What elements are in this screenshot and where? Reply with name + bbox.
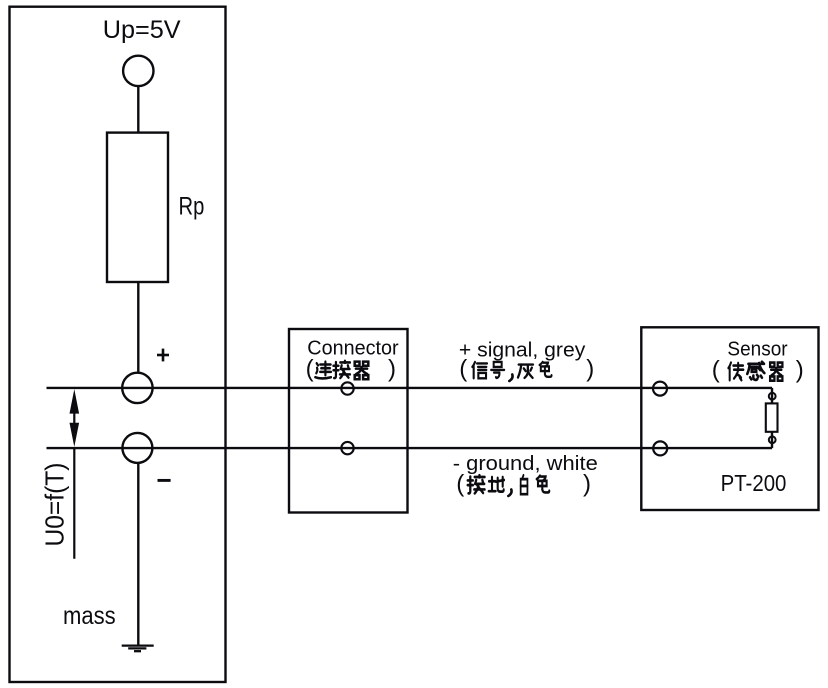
svg-text:- ground, white: - ground, white <box>453 453 598 475</box>
svg-text:): ) <box>583 471 591 498</box>
svg-text:): ) <box>796 357 804 384</box>
svg-text:(: ( <box>456 471 464 498</box>
svg-text:mass: mass <box>63 602 116 630</box>
svg-text:U0=f(T): U0=f(T) <box>39 463 69 547</box>
svg-text:PT-200: PT-200 <box>721 470 787 496</box>
svg-text:Sensor: Sensor <box>727 339 788 361</box>
svg-text:(: ( <box>459 356 467 383</box>
svg-text:(: ( <box>306 356 314 383</box>
svg-text:): ) <box>586 356 594 383</box>
svg-text:Up=5V: Up=5V <box>103 16 181 44</box>
svg-text:+ signal, grey: + signal, grey <box>459 339 585 361</box>
svg-text:Connector: Connector <box>307 338 399 360</box>
svg-text:): ) <box>388 356 396 383</box>
svg-text:Rp: Rp <box>179 193 205 221</box>
svg-text:(: ( <box>712 357 720 384</box>
